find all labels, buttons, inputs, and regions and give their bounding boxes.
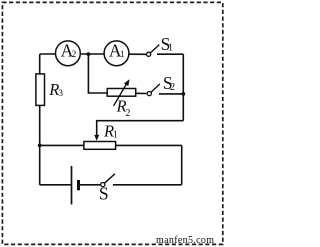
svg-text:manfen5.com: manfen5.com <box>156 235 214 246</box>
junction node (A2-A1 wire, R2 branch) <box>87 52 91 56</box>
wire S2 to right rail <box>159 93 184 95</box>
ammeter A1 <box>104 41 129 66</box>
resistor R3 <box>36 74 63 106</box>
wire left vertical upper (corner to R3 top) <box>39 54 41 74</box>
potentiometer R1 <box>84 122 118 150</box>
junction node (left rail, R1 wire) <box>38 144 42 148</box>
wire slider top rail <box>97 121 184 136</box>
svg-text:1: 1 <box>120 49 125 59</box>
svg-text:2: 2 <box>72 49 77 59</box>
wire top-left horizontal <box>40 53 56 55</box>
wire A2 to A1 <box>80 53 104 55</box>
wire R2 to S2 <box>136 92 147 94</box>
wire right rail upper vertical <box>182 54 184 121</box>
switch S1 <box>147 34 174 57</box>
wire bottom right <box>113 184 182 186</box>
svg-text:2: 2 <box>170 82 175 93</box>
switch S <box>99 174 115 204</box>
switch S2 <box>147 73 175 96</box>
wire battery to S <box>80 184 101 186</box>
battery <box>72 166 79 205</box>
svg-text:S: S <box>99 184 109 204</box>
svg-text:1: 1 <box>113 129 118 140</box>
rheostat R2 <box>107 79 136 119</box>
svg-text:2: 2 <box>125 108 130 119</box>
wire S1 to right rail <box>157 53 183 55</box>
wire R1 right <box>116 144 182 146</box>
svg-text:1: 1 <box>168 43 173 54</box>
ammeter A2 <box>56 41 81 66</box>
wire junction down to R2 branch <box>88 54 107 93</box>
svg-text:3: 3 <box>58 89 63 99</box>
junction node (S2 branch, right rail) <box>181 92 185 96</box>
wire R1 left <box>40 144 84 146</box>
wire left vertical lower (R3 bottom to bottom-left corner) <box>39 105 41 184</box>
wire A1 to S1 <box>129 53 147 55</box>
wire right rail lower vertical <box>181 145 183 184</box>
wire bottom left <box>40 184 71 186</box>
